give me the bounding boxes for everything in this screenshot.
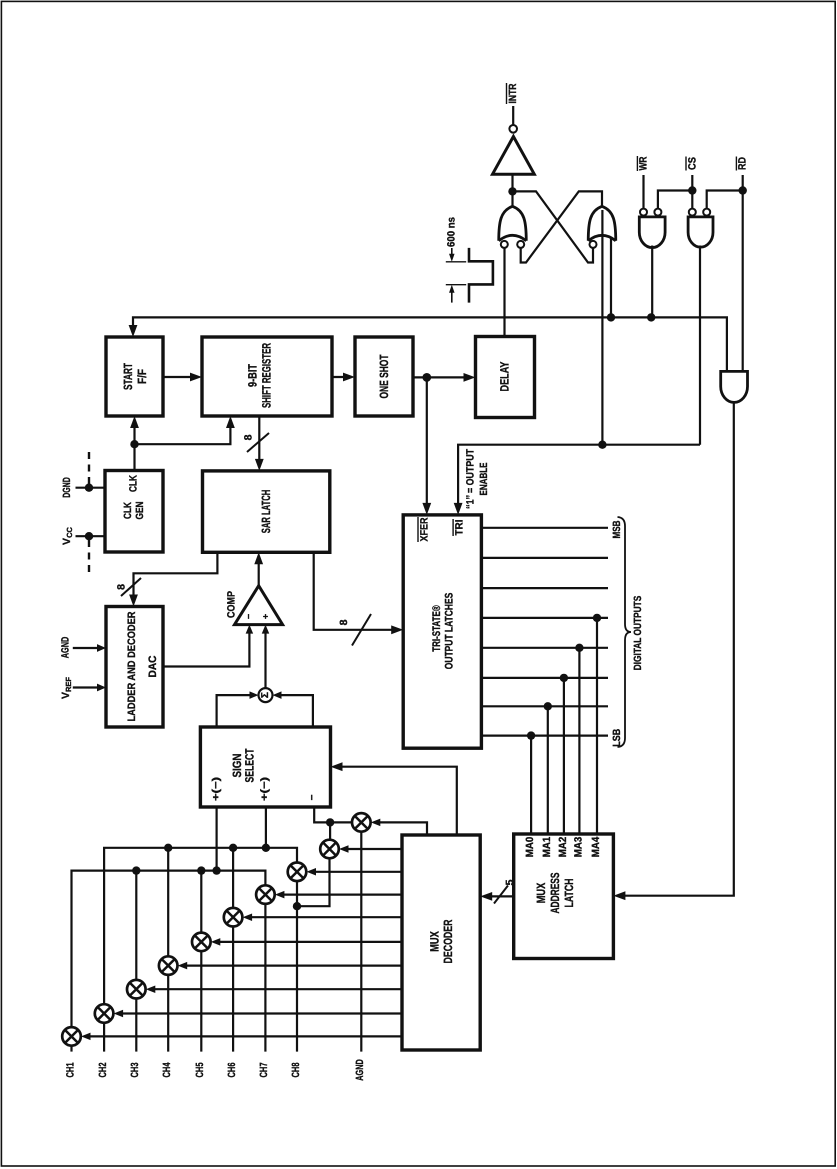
svg-text:OUTPUT LATCHES: OUTPUT LATCHES: [444, 593, 456, 670]
svg-text:‘‘1’’ = OUTPUT: ‘‘1’’ = OUTPUT: [465, 449, 477, 509]
svg-text:SHIFT REGISTER: SHIFT REGISTER: [260, 343, 274, 408]
wire cross-couple U1 output to U2 input: [513, 191, 594, 262]
svg-text:8: 8: [243, 434, 255, 440]
svg-text:600 ns: 600 ns: [446, 217, 458, 247]
svg-text:MA0: MA0: [524, 837, 536, 858]
svg-text:WR: WR: [638, 156, 650, 170]
pin CH3: [129, 1062, 141, 1077]
analog switch S2: [320, 840, 339, 859]
analog switch S4: [256, 885, 275, 904]
comparator COMP: [226, 586, 283, 625]
bubble U3 input A: [640, 209, 647, 216]
block DELAY: [476, 337, 535, 418]
pin CH6: [226, 1062, 238, 1077]
wire shift register to one shot: [332, 373, 355, 382]
wire control S5: [243, 913, 402, 921]
junction S2 jog on CH8 column: [293, 902, 301, 910]
wire one shot to delay: [413, 373, 476, 382]
pin AGND: [354, 1059, 366, 1081]
svg-text:CH8: CH8: [290, 1062, 302, 1077]
wire start line (WR latch feedback): [129, 317, 727, 371]
bubble U1 input B: [517, 241, 524, 248]
block SAR LATCH: [203, 471, 330, 552]
block CLK GEN: [105, 471, 163, 553]
wire plus bus A from sign select pin2: [265, 807, 267, 848]
wire sigma to comparator plus input: [262, 625, 270, 689]
svg-text:5: 5: [504, 879, 516, 885]
wire channel CH4: [167, 975, 169, 1052]
wire S8 drop: [135, 871, 137, 980]
wire channel CH5: [200, 951, 202, 1051]
svg-text:CLK: CLK: [122, 502, 134, 519]
svg-text:START: START: [121, 363, 135, 390]
svg-text:GEN: GEN: [134, 502, 146, 520]
svg-text:ONE SHOT: ONE SHOT: [377, 354, 391, 398]
svg-text:INTR: INTR: [507, 83, 519, 103]
pin CH5: [194, 1062, 206, 1077]
wire S2 to CH8 node: [297, 858, 330, 906]
block LADDER AND DECODER DAC: [106, 607, 163, 728]
bus mux address latch to mux decoder: [480, 892, 514, 901]
wire U4 input B to RD line: [707, 191, 743, 209]
wire control S6: [211, 938, 402, 946]
junction plus bus B to S8: [132, 866, 140, 874]
wire TRI enable feed: [454, 445, 700, 515]
svg-text:LATCH: LATCH: [562, 879, 576, 908]
wire U4 output to TRI feed: [699, 246, 701, 445]
analog switch S10: [62, 1027, 81, 1046]
nand gate U4 (CS, neg-AND): [688, 217, 713, 247]
wire S7 drop: [167, 848, 169, 957]
bubble U4 input A: [689, 209, 696, 216]
junction latch Q node: [508, 187, 516, 195]
block ONE SHOT: [355, 337, 413, 416]
wire control S3: [307, 868, 403, 876]
junction CLK node: [130, 440, 138, 448]
wire latch Q to inverter: [511, 174, 513, 206]
svg-text:CH1: CH1: [64, 1062, 76, 1077]
svg-text:CH7: CH7: [258, 1062, 270, 1077]
svg-text:VCC: VCC: [61, 526, 74, 544]
label LSB: [611, 728, 623, 746]
wire U3 output to start line: [651, 246, 653, 318]
and gate U5 (RD strobe): [721, 371, 748, 402]
svg-text:TRI: TRI: [453, 519, 465, 535]
svg-text:LSB: LSB: [611, 728, 623, 746]
svg-text:VREF: VREF: [60, 677, 73, 699]
junction CS line and U3 input: [688, 186, 696, 194]
wire channel CH8: [296, 881, 298, 1052]
wire RD line: [742, 175, 744, 371]
wire control S4: [275, 891, 402, 899]
junction start line and U3 output: [647, 313, 655, 321]
bus slash 8 (SAR to latches): [338, 614, 371, 646]
pin VREF: [60, 677, 106, 699]
bubble U4 input B: [703, 209, 710, 216]
dashed line VCC: [88, 540, 90, 576]
block TRI-STATE OUTPUT LATCHES: [403, 515, 481, 748]
label DIGITAL OUTPUTS: [632, 596, 644, 671]
dashed line DGND: [88, 451, 90, 485]
svg-text:CH4: CH4: [161, 1062, 173, 1077]
wire U1 input A from delay: [503, 248, 505, 337]
analog switch S9: [95, 1004, 114, 1023]
wire sign select pin3 to sigma: [273, 691, 313, 727]
wire minus bus from sign select: [314, 807, 352, 822]
wire mux decoder to sign select: [331, 762, 457, 835]
svg-text:+(−): +(−): [211, 777, 222, 801]
nand gate U2 (RS latch right, neg-OR): [588, 206, 616, 241]
svg-text:DGND: DGND: [61, 477, 73, 498]
junction RD line and U4 input: [739, 186, 747, 194]
svg-text:COMP: COMP: [226, 591, 238, 618]
wire S6 drop: [200, 871, 202, 933]
wire CLK to start F/F: [130, 416, 139, 471]
svg-text:AGND: AGND: [59, 636, 71, 658]
wire control S9: [114, 1010, 402, 1018]
wire control S10: [81, 1033, 402, 1041]
svg-text:MA2: MA2: [557, 837, 569, 858]
svg-text:−: −: [243, 614, 253, 619]
wire U3 input B to CS line: [658, 191, 692, 209]
junction start line and U2 input: [607, 313, 615, 321]
svg-text:LADDER AND DECODER: LADDER AND DECODER: [126, 611, 138, 721]
svg-text:CH2: CH2: [97, 1062, 109, 1077]
svg-text:MA1: MA1: [541, 837, 553, 858]
junction plus bus B to S6: [197, 866, 205, 874]
dimension 600 ns: [446, 217, 467, 303]
junction TRI feed and latch gate output: [598, 441, 606, 449]
pin DGND: [61, 477, 105, 498]
svg-text:DAC: DAC: [147, 655, 159, 677]
analog switch S5: [224, 908, 243, 927]
wire channel CH6: [232, 927, 234, 1052]
wire comparator output to SAR latch: [254, 552, 263, 585]
wires mux address taps MA4-MA0: [531, 618, 597, 834]
block 9-BIT SHIFT REGISTER: [202, 337, 332, 416]
pin CH1: [64, 1062, 76, 1077]
block MUX DECODER: [402, 835, 480, 1050]
summer sigma: [259, 688, 273, 702]
wire inverter to INTR pin: [512, 106, 514, 125]
svg-text:+: +: [261, 614, 271, 619]
svg-text:F/F: F/F: [135, 369, 149, 384]
svg-text:9-BIT: 9-BIT: [246, 363, 260, 387]
bus slash 8 (shift reg to SAR): [243, 433, 270, 452]
pin WR: [637, 156, 649, 208]
wire channel CH3: [135, 999, 137, 1052]
wire U2 input from start line: [610, 237, 612, 317]
svg-text:CH5: CH5: [194, 1062, 206, 1077]
svg-text:−: −: [307, 794, 318, 800]
wire control S8: [146, 985, 402, 993]
bubble U2 input A: [590, 241, 597, 248]
analog switch S3: [288, 863, 307, 882]
svg-text:CH3: CH3: [129, 1062, 141, 1077]
block START F/F: [106, 337, 163, 416]
wire START F/F to shift register: [163, 373, 202, 382]
wire channel CH2: [103, 1023, 105, 1052]
junction plus bus B pin1: [212, 866, 220, 874]
wire channel CH7: [264, 904, 266, 1052]
analog switch S1 (AGND): [352, 813, 371, 832]
junction plus bus A pin2: [262, 844, 270, 852]
wire control S7: [178, 962, 402, 970]
svg-text:+(−): +(−): [259, 777, 270, 801]
svg-text:MSB: MSB: [611, 520, 623, 538]
svg-text:DELAY: DELAY: [498, 362, 512, 392]
bus SAR latch to output latches: [314, 552, 404, 634]
svg-text:MA4: MA4: [590, 837, 602, 858]
inverter INTR driver: [493, 137, 535, 175]
junction plus bus A to S7: [164, 844, 172, 852]
pin CH8: [290, 1062, 302, 1077]
brace digital outputs: [618, 517, 632, 747]
analog switch S6: [192, 933, 211, 952]
wire DAC to comparator minus input: [163, 625, 253, 667]
bubble U3 input B: [654, 209, 661, 216]
block MUX ADDRESS LATCH: [514, 834, 614, 959]
svg-text:RD: RD: [737, 157, 749, 170]
label MSB: [611, 520, 623, 538]
pin CH2: [97, 1062, 109, 1077]
svg-text:8: 8: [338, 619, 350, 625]
waveform one-shot pulse: [469, 248, 493, 303]
svg-text:ENABLE: ENABLE: [478, 463, 490, 496]
label INTR: [507, 83, 519, 104]
svg-text:MA3: MA3: [572, 837, 584, 858]
wires digital output lines D0-D7: [481, 528, 608, 736]
wire plus bus B: [72, 871, 266, 1028]
svg-text:AGND: AGND: [354, 1059, 366, 1081]
wire sign select pin1 to sigma: [217, 691, 259, 727]
svg-text:Σ: Σ: [260, 692, 271, 698]
wire channel CH1: [70, 1046, 72, 1052]
svg-text:TRI-STATE®: TRI-STATE®: [431, 605, 443, 652]
wire plus bus A: [104, 848, 297, 1004]
junction minus bus: [326, 818, 334, 826]
wire cross-couple U2 output to U1 input: [521, 191, 602, 262]
analog switch S8: [127, 980, 146, 999]
label TRI: [453, 519, 465, 536]
label output enable note: [465, 449, 490, 509]
analog switch S7: [159, 956, 178, 975]
bubble U1 input A: [501, 241, 508, 248]
svg-text:8: 8: [116, 584, 128, 590]
svg-text:ADDRESS: ADDRESS: [548, 873, 562, 914]
pin CH4: [161, 1062, 173, 1077]
pin RD: [736, 157, 748, 171]
wire minus bus to switch S2: [329, 822, 331, 839]
bubble inverter output: [509, 125, 517, 133]
svg-text:SELECT: SELECT: [243, 748, 257, 782]
block SIGN SELECT: [200, 727, 330, 807]
svg-text:SAR LATCH: SAR LATCH: [259, 490, 273, 534]
bus shift register to SAR latch: [255, 416, 264, 471]
wire read-and gate to mux address latch: [613, 401, 733, 900]
junctions output lines to mux address taps: [527, 614, 601, 740]
nand gate U3 (WR, neg-AND): [639, 217, 665, 248]
bus slash 5 (address latch to decoder): [494, 879, 516, 903]
junction one-shot output node: [422, 373, 431, 382]
wire control S2: [339, 845, 402, 853]
svg-text:DECODER: DECODER: [441, 919, 455, 963]
wire CLK to shift register: [135, 416, 235, 444]
wire S5 drop: [232, 848, 234, 908]
wire U2 output down to TRI feed: [601, 210, 603, 445]
svg-text:MUX: MUX: [428, 931, 442, 952]
svg-text:DIGITAL OUTPUTS: DIGITAL OUTPUTS: [632, 596, 644, 671]
svg-text:CLK: CLK: [128, 475, 140, 492]
svg-text:XFER: XFER: [418, 517, 430, 541]
pin CS: [686, 157, 698, 209]
wire channel AGND: [360, 832, 362, 1052]
wire XFER from one-shot node: [422, 377, 431, 515]
svg-text:CS: CS: [686, 157, 698, 170]
pin AGND: [59, 636, 106, 658]
wire control S1: [371, 819, 427, 835]
bus SAR latch to DAC: [129, 552, 217, 606]
bus slash 8 (SAR to DAC): [116, 578, 142, 596]
wire plus bus B from sign select pin1: [216, 807, 218, 871]
pin VCC: [61, 526, 105, 544]
svg-text:MUX: MUX: [534, 883, 548, 904]
pin CH7: [258, 1062, 270, 1077]
nand gate U1 (RS latch left, neg-OR): [499, 206, 527, 241]
label XFER: [418, 517, 430, 542]
junction plus bus A to S5: [229, 844, 237, 852]
svg-text:CH6: CH6: [226, 1062, 238, 1077]
